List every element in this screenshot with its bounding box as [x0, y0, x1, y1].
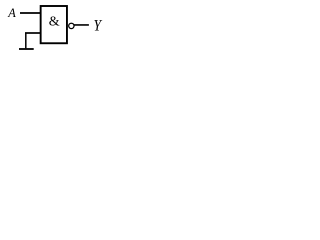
svg-text:Y: Y	[94, 18, 103, 35]
svg-text:A: A	[7, 6, 16, 20]
svg-text:&: &	[49, 15, 60, 30]
